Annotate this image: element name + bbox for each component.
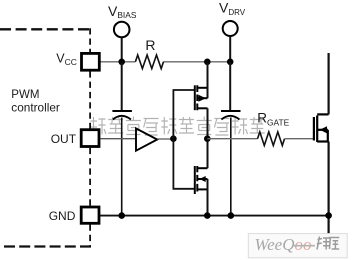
GND rail (100, 215, 329, 217)
svg-text:WeeQoo: WeeQoo (255, 235, 312, 254)
svg-text:controller: controller (11, 100, 60, 114)
wire: power MOSFET drain up (328, 53, 330, 114)
drain stub (197, 167, 207, 169)
source stub (197, 188, 207, 190)
node dot: gate bus (170, 135, 177, 142)
channel bar (segmented) (196, 166, 198, 192)
node dot: driver output (204, 135, 211, 142)
drain stub (317, 113, 328, 115)
node dot: power MOSFET source at GND (325, 212, 332, 219)
node dot: C-drv at GND (228, 212, 235, 219)
bulk stub (197, 178, 207, 180)
PWM controller dashed box (0, 28, 91, 246)
capacitor C-bias: lead from rail (121, 62, 123, 110)
capacitor C-drv plates (221, 110, 241, 112)
NMOS bulk arrow (points left = n-channel) (199, 176, 206, 182)
capacitor C-bias plates (112, 110, 131, 112)
node dot: C-bias at GND (118, 212, 125, 219)
channel bar (316, 116, 318, 143)
svg-text:VDRV: VDRV (219, 0, 246, 17)
svg-text:VCC: VCC (56, 52, 77, 67)
source stub (197, 87, 207, 89)
wire: RGATE to power MOSFET gate (285, 138, 314, 140)
pin square GND (81, 207, 99, 223)
svg-text:OUT: OUT (51, 132, 77, 146)
transistor NMOS (driver low side) (195, 166, 208, 194)
PMOS bulk arrow (points right = p-channel) (198, 95, 206, 102)
wire: PMOS drain down to output node (207, 108, 209, 138)
wire: gate bus down to NMOS gate (173, 139, 194, 189)
supply VDRV circle (223, 21, 238, 36)
svg-text:GND: GND (49, 209, 76, 223)
WeeQoo watermark CJK pseudo-glyphs wei ku (317, 237, 340, 250)
wire: VCC pin to VBIAS node (rail) (100, 61, 135, 63)
pin square VCC (82, 53, 100, 70)
wire: OUT pin to buffer input (101, 138, 136, 140)
wire: buffer output to gate node (157, 138, 173, 140)
wire: NMOS source down to GND rail (207, 189, 209, 215)
pin square OUT (81, 130, 99, 147)
node dot: VBIAS/rail (118, 59, 125, 66)
wire: gate bus up to PMOS gate (173, 90, 194, 139)
svg-text:VBIAS: VBIAS (108, 3, 137, 20)
drain stub (197, 107, 207, 109)
node dot: VDRV at rail (227, 59, 234, 66)
bulk stub (197, 97, 207, 99)
wire: PMOS source up to rail dot (207, 62, 209, 98)
WeeQoo watermark dash through oo (294, 245, 315, 247)
wire: rail after resistor R to VDRV node (164, 61, 231, 63)
resistor R (135, 55, 163, 69)
buffer amplifier triangle (136, 128, 157, 150)
svg-text:R: R (145, 37, 155, 53)
WeeQoo watermark box (248, 234, 347, 258)
gate bar (194, 85, 196, 110)
power MOSFET bulk arrow (points left = n-channel) (320, 126, 327, 133)
capacitor C-drv bottom lead to GND rail (230, 118, 232, 216)
bulk stub (317, 129, 328, 131)
gate bar (313, 117, 315, 141)
transistor PMOS (driver high side) (195, 85, 208, 110)
wire: power MOSFET source down to GND rail, continues below (328, 142, 330, 235)
resistor RGATE (258, 132, 285, 146)
wire: VBIAS circle to rail (121, 37, 123, 62)
svg-text:RGATE: RGATE (257, 111, 289, 128)
gate bar (194, 166, 196, 194)
wire: NMOS drain up to output node (207, 139, 209, 169)
wire: VDRV circle to rail (229, 36, 231, 62)
capacitor C-bias bottom lead to GND rail (121, 118, 123, 216)
node dot: NMOS source at GND (204, 212, 211, 219)
supply VBIAS circle (114, 22, 130, 38)
watermark chinese company text (pseudo-glyphs) (91, 117, 265, 136)
source stub (317, 140, 328, 142)
capacitor C-drv: lead from rail (229, 62, 231, 110)
transistor Q power MOSFET (314, 114, 329, 142)
wire: output node to RGATE (207, 138, 257, 140)
wire: NMOS bulk tie down to source (207, 179, 209, 189)
bulk-to-source tie (327, 130, 329, 142)
node dot: PMOS source at rail (204, 59, 211, 66)
channel bar (segmented) (196, 85, 198, 110)
